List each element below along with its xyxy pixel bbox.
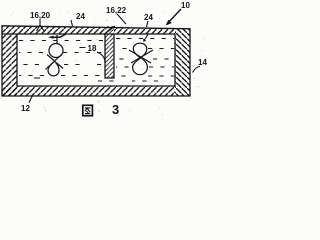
svg-text:24: 24 (144, 13, 153, 22)
svg-text:10: 10 (181, 1, 190, 10)
svg-text:12: 12 (21, 104, 30, 113)
svg-text:14: 14 (198, 58, 207, 67)
svg-text:24: 24 (76, 12, 85, 21)
svg-text:18: 18 (88, 44, 97, 53)
svg-text:3: 3 (112, 102, 119, 117)
svg-text:16,20: 16,20 (30, 11, 51, 20)
